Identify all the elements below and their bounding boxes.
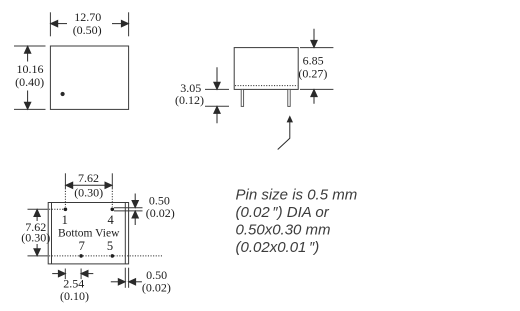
dim 6.85 lower arrow (pointing up): [311, 90, 317, 104]
dim 0.50 up arrow: [132, 211, 138, 225]
dim 0.50 edge right arrow (pointing left): [129, 279, 142, 285]
svg-text:(0.50): (0.50): [73, 23, 102, 37]
pin 5 dot: [111, 254, 115, 258]
svg-text:0.50x0.30 mm: 0.50x0.30 mm: [236, 222, 331, 239]
svg-text:(0.27): (0.27): [298, 67, 327, 81]
dim 10.16 top extension line: [14, 45, 46, 47]
pin pointer arrow (side view): [278, 122, 290, 150]
dim 0.50 pin diameter upper line: [114, 207, 143, 209]
bottom view outer rectangle: [48, 203, 128, 264]
dim 12.70 left arrow: [51, 20, 67, 26]
dim 7.62 (top) left extension line: [64, 173, 66, 188]
dim 2.54 right extension line: [80, 269, 82, 280]
dim 7.62 (left) bottom extension line: [28, 255, 47, 257]
dim 7.62 (top) right dotted lead to pin 4: [111, 188, 113, 207]
svg-text:1: 1: [62, 213, 68, 227]
svg-text:(0.02): (0.02): [146, 206, 175, 220]
dim 12.70 left extension line: [49, 12, 51, 36]
dim 0.50 edge left arrow (pointing right): [111, 279, 126, 285]
svg-text:(0.40): (0.40): [15, 75, 44, 89]
svg-text:(0.10): (0.10): [60, 289, 89, 303]
dim 3.05 lower arrow (pointing up): [214, 106, 220, 123]
dim 10.16 upper arrow: [24, 46, 30, 61]
dim 2.54 left arrow (pointing right): [52, 270, 65, 276]
dim 0.50 edge right extension line: [128, 268, 130, 288]
dim 7.62 (left) lower arrow: [34, 244, 40, 256]
svg-text:(0.12): (0.12): [175, 93, 204, 107]
pin 7 dot: [79, 254, 83, 258]
dim 7.62 (left) upper arrow: [34, 210, 40, 222]
side view right pin: [288, 89, 290, 106]
dim 12.70 right extension line: [128, 12, 130, 36]
svg-text:Bottom View: Bottom View: [58, 228, 120, 240]
dim 3.05 upper arrow (pointing down): [214, 67, 220, 89]
dim 7.62 (top) left dotted lead to pin 1: [64, 188, 66, 207]
bottom view inner right edge line: [124, 203, 126, 264]
svg-text:7.62: 7.62: [78, 171, 99, 185]
svg-text:10.16: 10.16: [17, 62, 44, 76]
bottom view inner left edge line: [51, 203, 53, 264]
pin 1 dot: [64, 208, 68, 212]
top view body rectangle: [50, 46, 128, 109]
svg-text:(0.02): (0.02): [142, 281, 171, 295]
svg-text:Pin size is 0.5 mm: Pin size is 0.5 mm: [236, 186, 358, 203]
dim 7.62 (left) top extension line: [28, 208, 47, 210]
side view dotted seating line: [235, 85, 298, 87]
dim 10.16 lower arrow: [24, 91, 30, 110]
svg-text:7: 7: [79, 239, 85, 253]
pin 4 dot: [111, 208, 115, 212]
dim 6.85 top extension line: [300, 47, 333, 49]
dim 12.70 right arrow: [112, 20, 128, 26]
dim 0.50 down arrow: [132, 194, 138, 208]
dim 2.54 left extension line: [64, 269, 66, 280]
dim 3.05 top extension line: [205, 88, 229, 90]
dim 3.05 bottom extension line: [205, 105, 229, 107]
dim 6.85 upper arrow (pointing down): [311, 29, 317, 48]
dim 2.54 right arrow (pointing left): [81, 270, 93, 276]
dim 7.62 (top) dimension line with arrows: [66, 182, 112, 188]
dim 6.85 bottom extension line: [300, 88, 333, 90]
pin 1 index dot (top view): [61, 92, 65, 96]
dotted lead row 1: [47, 208, 64, 210]
dim 10.16 bottom extension line: [14, 108, 46, 110]
dim 7.62 (top) right extension line: [111, 173, 113, 188]
dotted lead row 2: [47, 255, 164, 257]
svg-text:4: 4: [107, 213, 114, 227]
side view left pin: [241, 89, 243, 106]
dim 0.50 pin diameter lower line: [114, 210, 143, 212]
svg-text:(0.30): (0.30): [21, 231, 50, 245]
svg-text:(0.30): (0.30): [74, 186, 103, 200]
svg-text:5: 5: [107, 239, 113, 253]
side view body rectangle: [234, 48, 298, 90]
svg-text:(0.02″) DIA or: (0.02″) DIA or: [236, 204, 330, 221]
dim 0.50 edge left extension line: [124, 268, 126, 288]
